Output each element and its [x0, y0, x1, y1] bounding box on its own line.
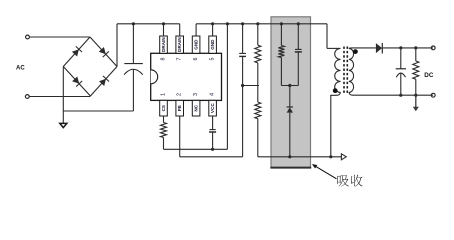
pin6 label box GND — [192, 36, 200, 53]
bridge diode D3 (left-bottom edge) — [72, 77, 82, 87]
wire R1 top — [257, 24, 259, 45]
bridge rectifier edges — [63, 37, 117, 96]
junction dot rail x227.4 — [226, 22, 229, 25]
pin7 wire — [179, 24, 181, 36]
pin5 label box GND — [209, 36, 217, 53]
pin number 1 — [161, 93, 167, 96]
svg-text:6: 6 — [193, 58, 199, 61]
wire VCC cap to rail — [212, 132, 214, 149]
wire diode to terminal — [382, 47, 433, 49]
IC U1 body — [151, 53, 222, 100]
pin number 5 — [210, 58, 216, 61]
bulk capacitor C1 — [124, 64, 143, 75]
wire Rload bottom — [415, 79, 417, 95]
junction dot rail x257.8 — [256, 22, 259, 25]
pin5 wire — [212, 24, 214, 36]
junction dot rail x298.3 — [297, 22, 300, 25]
ground arrow right — [413, 95, 419, 111]
svg-text:2: 2 — [177, 93, 183, 96]
resistor R_CS — [161, 123, 167, 138]
wire CS resistor to rail — [163, 138, 165, 150]
wire bridge+ up — [116, 24, 118, 67]
pin8 wire — [163, 24, 165, 36]
wire rail down to primary — [327, 24, 341, 49]
svg-text:CS: CS — [161, 105, 166, 111]
junction dot VCC bottom — [211, 148, 214, 151]
svg-text:FB: FB — [177, 104, 182, 111]
transformer core — [344, 47, 347, 95]
svg-text:DRAIN: DRAIN — [161, 37, 166, 52]
svg-text:AC: AC — [16, 66, 25, 72]
capacitor C_VCC — [209, 130, 216, 132]
output diode D6 — [376, 43, 382, 54]
svg-text:7: 7 — [177, 58, 183, 61]
DC terminal top — [431, 46, 435, 50]
label 吸收 — [337, 175, 362, 187]
output capacitor C4 — [396, 69, 406, 77]
capacitor C2 — [239, 53, 246, 56]
junction dot snubber bottom — [288, 155, 291, 158]
wire AC top to bridge — [30, 36, 91, 38]
svg-text:VCC: VCC — [210, 103, 215, 113]
svg-text:4: 4 — [210, 93, 216, 96]
wire R1 bottom — [257, 63, 259, 102]
pin3 label box NC — [192, 100, 200, 116]
wire gnd vertical — [226, 24, 228, 150]
junction dot cap top — [132, 22, 135, 25]
svg-text:GND: GND — [210, 39, 215, 50]
pin7 label box DRAIN — [176, 36, 184, 53]
open arrow right — [341, 154, 346, 160]
snubber diode D5 branch — [287, 86, 293, 157]
left top rail — [117, 23, 180, 25]
right top rail — [196, 23, 327, 25]
bridge diode D2 (top-right edge) — [99, 47, 109, 57]
label AC — [16, 66, 25, 72]
wire cap C1 bottom lead — [63, 69, 133, 111]
svg-text:NC: NC — [194, 104, 199, 111]
svg-text:DC: DC — [424, 72, 434, 79]
snubber junction wire — [281, 84, 298, 87]
wire AC bottom to bridge — [29, 96, 90, 98]
wire C2 top — [242, 24, 244, 54]
junction dot xfmr bottom — [329, 155, 332, 158]
junction dot rail x281.4 — [280, 22, 283, 25]
junction dot out res bottom — [414, 94, 417, 97]
wire Rload top — [415, 48, 417, 61]
junction dot out res top — [414, 46, 417, 49]
wire primary bottom — [331, 92, 341, 156]
wire cap C1 top lead — [132, 24, 134, 64]
svg-text:8: 8 — [161, 58, 167, 61]
resistor R_load — [413, 61, 419, 79]
DC terminal bottom — [431, 93, 435, 97]
junction dot out cap top — [399, 46, 402, 49]
svg-text:3: 3 — [193, 93, 199, 96]
junction line — [241, 84, 259, 87]
pin number 4 — [210, 93, 216, 96]
wire CS down — [163, 116, 165, 123]
wire C4 top — [400, 48, 402, 69]
rail B (FB) — [180, 156, 243, 158]
junction dot out cap bottom — [399, 94, 402, 97]
pin1 label box CS — [160, 100, 168, 116]
transformer T1 primary winding — [335, 48, 341, 92]
AC input terminal top — [26, 35, 30, 39]
snubber capacitor C3 — [295, 24, 302, 86]
label DC — [424, 72, 434, 79]
svg-text:1: 1 — [161, 93, 167, 96]
annotation arrow — [312, 164, 337, 179]
wire bridge left vertex down — [62, 67, 64, 124]
transformer T1 secondary winding — [349, 48, 354, 92]
pin4 label box VCC — [209, 100, 217, 116]
bridge diode D4 (bottom-right edge) — [99, 76, 109, 86]
snubber resistor R3 — [278, 24, 284, 86]
resistor R1 — [255, 45, 261, 63]
wire secondary bottom — [349, 92, 433, 95]
junction dot rail x242.6 — [241, 22, 244, 25]
pin number 6 — [193, 58, 199, 61]
wire FB rail up — [242, 86, 244, 157]
pin number 7 — [177, 58, 183, 61]
secondary polarity dot — [353, 49, 358, 54]
bridge diode D1 (left-top edge) — [72, 46, 82, 56]
svg-text:5: 5 — [210, 58, 216, 61]
rail A (CS/VCC gnd return) — [164, 148, 228, 150]
wire FB down — [179, 116, 181, 157]
pin number 3 — [193, 93, 199, 96]
snubber region box — [270, 17, 311, 168]
svg-text:GND: GND — [194, 39, 199, 50]
wire C4 bottom — [400, 73, 402, 95]
wire C2 bottom — [242, 56, 244, 85]
bottom rail to arrow — [258, 156, 342, 158]
AC input terminal bottom — [25, 95, 29, 99]
wire R2 bottom — [257, 119, 259, 157]
junction dot rail x212.6 — [211, 22, 214, 25]
pin2 label box FB — [176, 100, 184, 116]
pin number 2 — [177, 93, 183, 96]
junction dot pin8 — [162, 22, 165, 25]
ground arrow left (open) — [60, 123, 67, 127]
pin8 label box DRAIN — [160, 36, 168, 53]
primary polarity dot — [333, 88, 338, 93]
wire secondary top — [349, 47, 376, 50]
resistor R2 — [255, 102, 261, 119]
pin6 wire — [195, 24, 197, 36]
wire VCC down — [212, 116, 214, 130]
svg-text:DRAIN: DRAIN — [177, 37, 182, 52]
pin number 8 — [161, 58, 167, 61]
